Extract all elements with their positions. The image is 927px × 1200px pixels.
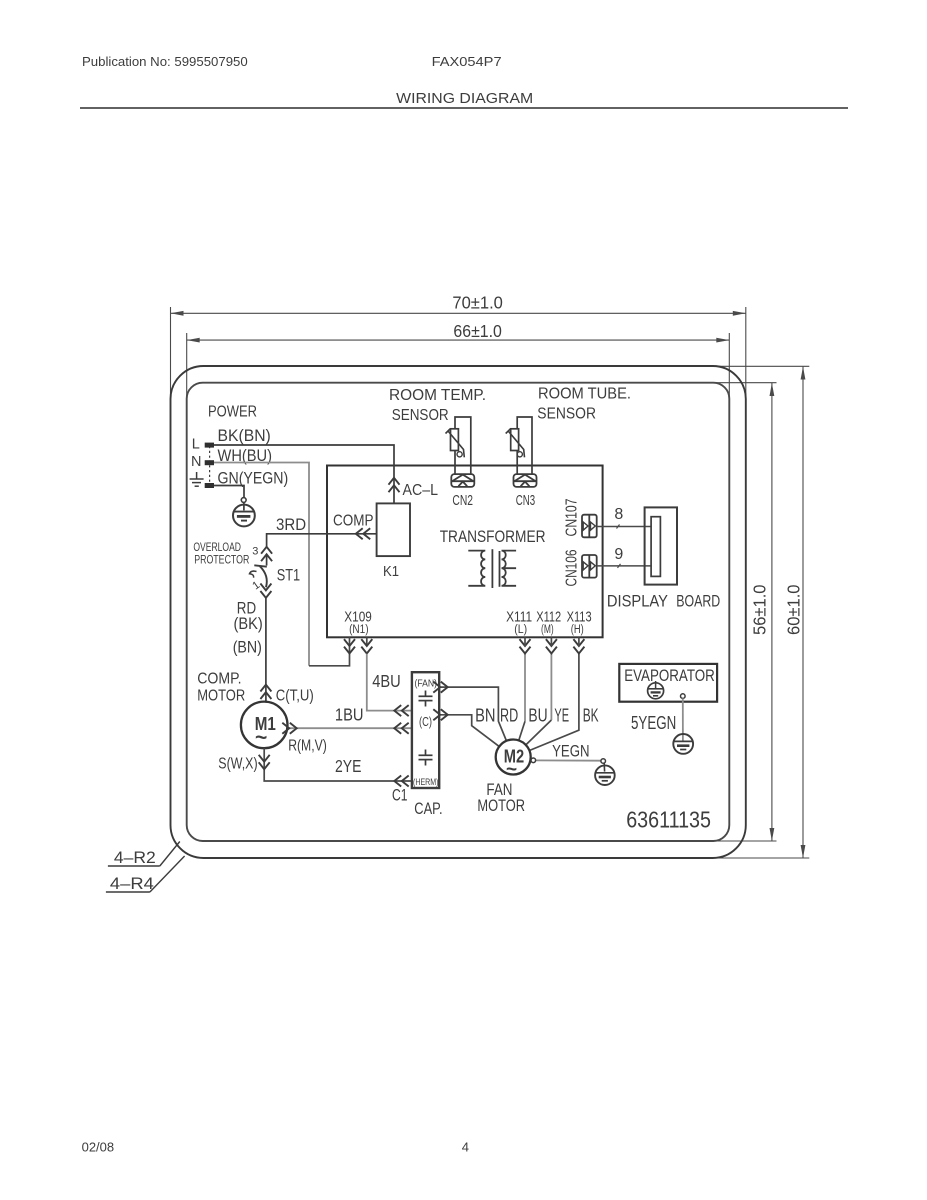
svg-text:60±1.0: 60±1.0 xyxy=(784,584,804,635)
svg-text:(C): (C) xyxy=(419,714,432,729)
svg-text:CN106: CN106 xyxy=(564,550,581,587)
svg-text:SENSOR: SENSOR xyxy=(537,406,596,423)
svg-text:YE: YE xyxy=(554,706,569,726)
transformer T1 primary winding xyxy=(468,551,485,586)
tick on wire 8 xyxy=(617,525,620,529)
chassis inner rounded rectangle xyxy=(187,383,730,841)
arrow on X112 pin xyxy=(546,639,557,653)
terminal ground pad xyxy=(205,483,214,488)
svg-text:(FAN): (FAN) xyxy=(415,678,438,690)
thermistor RT2 dot xyxy=(517,452,522,457)
arrows into capacitor C from 1BU xyxy=(394,723,408,734)
wire WH from N down to X109 xyxy=(214,463,309,666)
svg-text:3: 3 xyxy=(252,546,258,558)
svg-text:(M): (M) xyxy=(541,624,554,636)
wire X113 to M2 xyxy=(529,654,579,751)
chassis outer rounded rectangle xyxy=(171,366,746,858)
wire 8 from CN107 to display board xyxy=(597,526,651,528)
svg-text:CAP.: CAP. xyxy=(414,800,442,818)
wire 9 from CN106 to display board xyxy=(597,565,651,567)
wire R from M1 to capacitor (1BU) xyxy=(288,727,412,729)
room tube sensor probe body xyxy=(517,417,532,474)
svg-text:4–R2: 4–R2 xyxy=(114,848,156,867)
svg-text:YEGN: YEGN xyxy=(552,742,589,761)
svg-text:POWER: POWER xyxy=(208,404,257,421)
svg-text:MOTOR: MOTOR xyxy=(477,797,525,815)
thermistor RT2 element xyxy=(511,429,519,451)
svg-text:FAX054P7: FAX054P7 xyxy=(432,54,502,69)
ground terminal circle right xyxy=(601,759,606,764)
svg-text:CN2: CN2 xyxy=(452,493,473,509)
connector CN106 symbol xyxy=(582,555,597,578)
svg-text:RD: RD xyxy=(500,706,518,726)
transformer T1 core xyxy=(491,549,493,588)
svg-text:DISPLAY: DISPLAY xyxy=(607,593,668,611)
corner radius callout 4-R2 xyxy=(108,842,180,868)
wire segment X109 pin1 xyxy=(309,637,350,666)
terminal block dashed link xyxy=(209,446,211,484)
connector CN3 symbol xyxy=(514,474,537,487)
svg-text:BOARD: BOARD xyxy=(676,593,720,611)
arrows out of M1 R terminal xyxy=(282,723,296,734)
EVAPORATOR box xyxy=(619,664,717,702)
svg-text:1BU: 1BU xyxy=(335,705,364,725)
wire X111 to M2 xyxy=(524,654,526,721)
ST1 squiggle mark xyxy=(250,571,257,578)
svg-text:AC–L: AC–L xyxy=(403,482,439,499)
svg-text:BN: BN xyxy=(475,706,495,726)
svg-text:ROOM TEMP.: ROOM TEMP. xyxy=(389,387,486,404)
chassis ground symbol (evaporator) xyxy=(673,734,693,754)
arrow on AC-L wire xyxy=(389,478,400,492)
svg-text:TRANSFORMER: TRANSFORMER xyxy=(440,528,546,546)
svg-text:COMP: COMP xyxy=(333,513,374,530)
svg-text:(HERM): (HERM) xyxy=(413,777,439,788)
M2 ground wire terminal circle xyxy=(531,758,536,763)
svg-text:4BU: 4BU xyxy=(372,671,401,691)
dimension line 66 xyxy=(187,333,730,400)
wire 5YEGN to ground xyxy=(682,698,684,741)
svg-text:EVAPORATOR: EVAPORATOR xyxy=(624,667,715,685)
evaporator ground terminal circle xyxy=(681,694,686,699)
svg-text:(N1): (N1) xyxy=(349,624,369,636)
svg-text:X112: X112 xyxy=(536,609,561,626)
wire from ST1 to compressor C terminal xyxy=(265,598,267,701)
arrows out of M1 S terminal xyxy=(259,755,270,769)
relay K1 box xyxy=(377,503,410,556)
thermistor RT1 element xyxy=(451,429,459,451)
transformer T1 secondary winding xyxy=(502,551,517,586)
arrows into capacitor HERM from 2YE xyxy=(394,776,408,787)
wire C terminal to M2 (BN path) xyxy=(439,715,499,747)
svg-text:BK: BK xyxy=(583,706,599,726)
thermistor RT1 strike line xyxy=(448,431,464,457)
ground symbol inside evaporator xyxy=(648,681,664,699)
svg-text:4–R4: 4–R4 xyxy=(110,874,154,893)
PCB control board box xyxy=(327,466,603,638)
arrows into M1 C terminal xyxy=(260,685,271,699)
svg-text:X111: X111 xyxy=(506,609,532,626)
svg-text:R(M,V): R(M,V) xyxy=(288,738,327,755)
thermistor RT2 strike line xyxy=(508,431,524,457)
svg-text:N: N xyxy=(191,454,201,470)
svg-text:(BN): (BN) xyxy=(233,638,262,657)
svg-text:1: 1 xyxy=(250,579,262,592)
svg-text:BK(BN): BK(BN) xyxy=(218,427,271,445)
svg-text:CN3: CN3 xyxy=(516,493,535,509)
svg-text:X109: X109 xyxy=(344,609,372,626)
svg-text:56±1.0: 56±1.0 xyxy=(750,584,770,635)
compressor motor M1 circle xyxy=(241,702,288,749)
arrow on X113 pin xyxy=(573,639,584,653)
dimension line 70 xyxy=(171,307,746,400)
YEGN wire from M2 to ground xyxy=(536,759,601,761)
chassis ground symbol (fan motor) xyxy=(595,763,615,785)
svg-text:C(T,U): C(T,U) xyxy=(276,688,314,705)
svg-text:ST1: ST1 xyxy=(277,566,300,585)
protective earth terminal circle xyxy=(241,498,246,503)
ST1 fixed contact bar xyxy=(254,565,266,566)
display board connector slot xyxy=(651,517,660,577)
terminal N pad xyxy=(205,460,214,465)
connector CN107 symbol xyxy=(582,515,597,538)
arrow on X109 pin1 xyxy=(344,639,355,653)
wire 3RD from COMP to ST1 xyxy=(267,534,377,547)
svg-text:4: 4 xyxy=(462,1140,469,1155)
svg-text:~: ~ xyxy=(255,727,267,750)
wire 4BU from X109 to capacitor C terminal xyxy=(367,654,412,711)
fan motor M2 circle xyxy=(496,740,531,775)
svg-text:2YE: 2YE xyxy=(335,756,361,776)
svg-text:70±1.0: 70±1.0 xyxy=(452,293,503,313)
svg-text:~: ~ xyxy=(506,760,517,781)
svg-text:9: 9 xyxy=(614,546,623,563)
corner radius callout 4-R4 xyxy=(106,856,185,893)
arrows into capacitor C from 4BU xyxy=(394,705,408,716)
arrows on COMP wire xyxy=(356,528,370,539)
header rule xyxy=(80,107,848,109)
svg-text:ROOM TUBE.: ROOM TUBE. xyxy=(538,386,631,403)
arrow on X109 pin2 xyxy=(361,639,372,653)
tick on wire 9 xyxy=(618,564,621,568)
protective earth symbol (power) xyxy=(233,502,255,526)
wire BK from L to AC-L input xyxy=(214,445,394,503)
arrows out of capacitor C xyxy=(433,709,447,720)
capacitor element lower xyxy=(419,750,433,766)
arrows out of capacitor FAN xyxy=(433,682,447,693)
svg-text:Publication No: 5995507950: Publication No: 5995507950 xyxy=(82,54,248,69)
display board outer box xyxy=(645,507,677,584)
arrows out of ST1 terminal 1 xyxy=(260,584,271,598)
svg-text:(H): (H) xyxy=(571,624,584,636)
arrows into ST1 terminal 3 xyxy=(261,547,272,561)
svg-text:MOTOR: MOTOR xyxy=(197,688,245,705)
terminal L pad xyxy=(205,443,214,448)
wire X112 to M2 xyxy=(550,654,552,720)
svg-text:(L): (L) xyxy=(514,624,527,636)
svg-text:8: 8 xyxy=(614,506,623,523)
svg-text:K1: K1 xyxy=(383,563,399,580)
thermistor RT1 dot xyxy=(457,452,462,457)
wire S from M1 to capacitor HERM (2YE) xyxy=(264,748,412,781)
svg-text:PROTECTOR: PROTECTOR xyxy=(194,553,249,567)
svg-text:BU: BU xyxy=(528,706,547,726)
svg-text:3RD: 3RD xyxy=(276,515,306,534)
connector CN2 symbol xyxy=(451,474,474,487)
svg-text:(BK): (BK) xyxy=(234,614,263,633)
svg-text:02/08: 02/08 xyxy=(82,1140,115,1155)
svg-text:CN107: CN107 xyxy=(564,499,581,537)
svg-text:X113: X113 xyxy=(567,609,592,626)
svg-text:L: L xyxy=(192,437,200,453)
svg-text:63611135: 63611135 xyxy=(626,807,711,833)
wire GN to protective earth xyxy=(214,486,244,498)
X109 pin2 stub xyxy=(366,637,368,646)
capacitor C1 box xyxy=(412,672,439,788)
earth glyph at power entry xyxy=(190,472,204,486)
dimension line 56 xyxy=(713,383,777,841)
svg-text:SENSOR: SENSOR xyxy=(392,407,449,424)
svg-text:5YEGN: 5YEGN xyxy=(631,712,676,733)
svg-text:66±1.0: 66±1.0 xyxy=(453,321,502,341)
svg-text:WIRING DIAGRAM: WIRING DIAGRAM xyxy=(396,91,533,107)
svg-text:COMP.: COMP. xyxy=(197,671,241,688)
svg-text:C1: C1 xyxy=(392,787,408,805)
room temp sensor probe body xyxy=(455,417,471,474)
arrow on X111 pin xyxy=(520,639,531,653)
dimension line 60 xyxy=(713,366,810,858)
svg-text:S(W,X): S(W,X) xyxy=(218,756,257,773)
capacitor element upper xyxy=(419,691,433,707)
wire FAN terminal to M2 (RD path) xyxy=(439,687,506,741)
overload protector ST1 blade xyxy=(260,566,267,587)
